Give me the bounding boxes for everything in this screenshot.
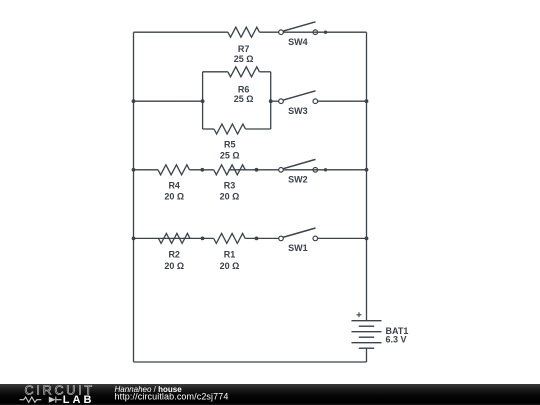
resistor R1 (214, 233, 246, 270)
svg-text:http://circuitlab.com/c2sj774: http://circuitlab.com/c2sj774 (115, 392, 229, 402)
switch SW4 (279, 22, 367, 47)
resistor R2 (159, 233, 191, 270)
resistor R6 (203, 67, 271, 104)
switch SW1 (279, 228, 318, 253)
switch SW2 (279, 159, 367, 184)
wire parallel box right edge (270, 72, 272, 129)
wire top branch left (134, 31, 228, 33)
node left rail junction branch 2 (132, 99, 136, 103)
wire branch 2 to switch (271, 100, 279, 102)
resistor R3 (214, 165, 246, 202)
svg-text:25 Ω: 25 Ω (234, 54, 254, 64)
wire branch 3 under R3 to switch (229, 169, 279, 171)
svg-text:25 Ω: 25 Ω (234, 94, 254, 104)
svg-text:6.3 V: 6.3 V (386, 335, 407, 345)
logo resistor-diode glyph (20, 397, 62, 403)
node junction R1-SW1 (255, 237, 259, 241)
resistor R4 (158, 165, 190, 202)
wire parallel box left edge (202, 72, 204, 129)
switch SW3 (279, 91, 318, 116)
node right rail junction branch 4 (365, 237, 369, 241)
wire bottom (134, 361, 367, 363)
wire branch 3 left (134, 169, 159, 171)
svg-text:20 Ω: 20 Ω (164, 191, 184, 201)
node right rail junction branch 2 (365, 99, 369, 103)
svg-text:20 Ω: 20 Ω (220, 191, 240, 201)
wire branch 2 left (134, 100, 203, 102)
svg-text:25 Ω: 25 Ω (220, 151, 240, 161)
battery BAT1 (352, 321, 409, 349)
svg-text:R3: R3 (224, 180, 236, 190)
svg-text:SW4: SW4 (288, 37, 308, 47)
svg-text:R7: R7 (238, 44, 250, 54)
svg-text:SW2: SW2 (288, 174, 308, 184)
svg-text:R2: R2 (168, 249, 180, 259)
node junction R2-R1 (201, 237, 205, 241)
svg-text:SW3: SW3 (288, 106, 308, 116)
node parallel box right (269, 99, 273, 103)
wire branch 4 to switch (245, 237, 279, 239)
svg-text:20 Ω: 20 Ω (164, 261, 184, 271)
node junction R3-SW2 (255, 168, 259, 172)
svg-text:R6: R6 (238, 85, 250, 95)
node left rail junction branch 3 (132, 168, 136, 172)
node right rail junction branch 3 (365, 168, 369, 172)
wire battery to bottom (366, 348, 368, 362)
svg-text:R4: R4 (168, 180, 180, 190)
svg-text:20 Ω: 20 Ω (220, 261, 240, 271)
wire branch 2 right (318, 100, 367, 102)
svg-text:SW1: SW1 (288, 243, 308, 253)
node parallel box left (201, 99, 205, 103)
wire right rail (366, 32, 368, 321)
node left rail junction branch 4 (132, 237, 136, 241)
svg-text:LAB: LAB (63, 394, 95, 405)
resistor R5 (203, 124, 271, 161)
wire branch 3 middle (190, 169, 214, 171)
resistor R7 (228, 27, 279, 64)
wire left rail (133, 32, 135, 362)
svg-text:R1: R1 (224, 249, 236, 259)
wire branch 4 left under R2 (134, 237, 214, 239)
wire branch 4 right (318, 237, 367, 239)
svg-text:R5: R5 (224, 140, 236, 150)
node junction R4-R3 (200, 168, 204, 172)
battery plus sign (357, 312, 362, 317)
